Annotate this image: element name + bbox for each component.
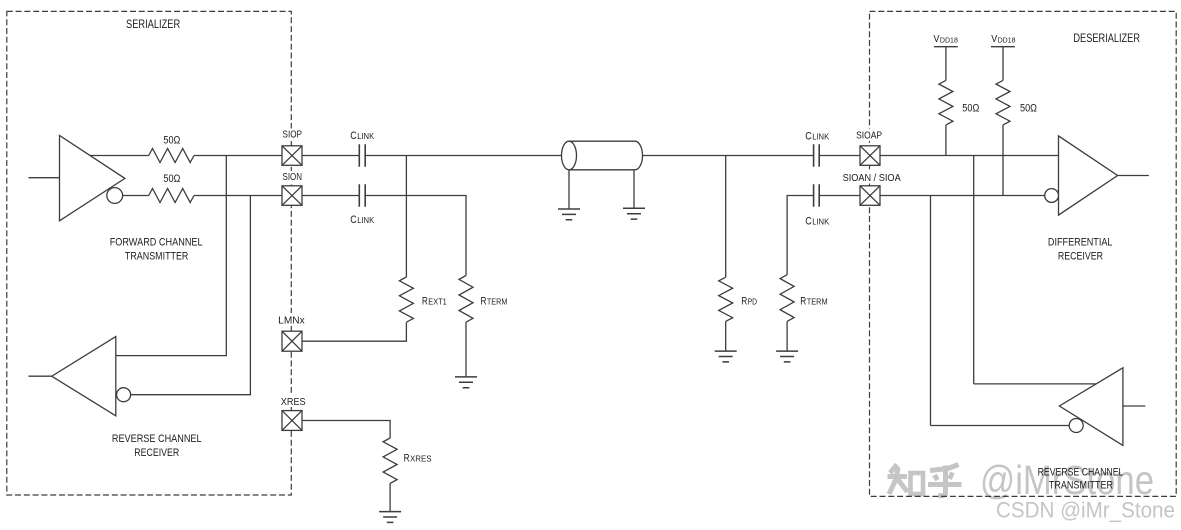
- op-amp forward channel transmitter: [60, 135, 125, 220]
- svg-text:50Ω: 50Ω: [163, 173, 180, 185]
- wire differential receiver output: [1118, 175, 1149, 177]
- svg-text:LINK: LINK: [357, 132, 375, 141]
- svg-text:TERM: TERM: [807, 298, 828, 307]
- svg-text:CSDN @iMr_Stone: CSDN @iMr_Stone: [996, 498, 1175, 523]
- label SIOP: [281, 129, 305, 142]
- svg-text:SERIALIZER: SERIALIZER: [126, 17, 180, 31]
- watermark zhihu CJK glyphs: [888, 465, 962, 496]
- wire CLINK to line: [365, 155, 561, 157]
- pad SIOAN: [860, 186, 880, 206]
- svg-text:LMNx: LMNx: [278, 316, 305, 327]
- supply VDD18 no2: [991, 47, 1015, 81]
- svg-text:XRES: XRES: [410, 455, 432, 464]
- wire tap P to reverse receiver: [116, 156, 227, 356]
- svg-text:R: R: [741, 296, 747, 308]
- bubble reverse rx inverting input: [117, 388, 131, 402]
- pad SION: [282, 186, 302, 206]
- svg-text:50Ω: 50Ω: [163, 135, 180, 147]
- wire RPD to ground: [725, 321, 727, 351]
- op-amp reverse channel receiver: [52, 337, 116, 416]
- resistor 50ohm P: [149, 149, 194, 163]
- capacitor CLINK P left: [359, 144, 365, 167]
- svg-text:C: C: [350, 214, 357, 226]
- svg-text:C: C: [805, 215, 812, 227]
- wire tap N to reverse receiver bubble: [131, 196, 251, 395]
- svg-text:50Ω: 50Ω: [962, 103, 979, 115]
- svg-text:FORWARD CHANNEL: FORWARD CHANNEL: [110, 237, 203, 249]
- wire forward transmitter input: [29, 177, 60, 179]
- wire RPD tap: [725, 156, 727, 278]
- resistor RTERM deserializer side: [780, 275, 794, 322]
- svg-text:REVERSE CHANNEL: REVERSE CHANNEL: [112, 433, 202, 445]
- resistor 50ohm pullup no1: [939, 80, 953, 125]
- bubble forward tx inverting output: [107, 188, 123, 204]
- pad LMNx: [282, 331, 302, 351]
- wire pullup2 to N line: [1002, 125, 1004, 196]
- wire RXRES to ground: [389, 483, 391, 511]
- svg-text:SIOAN / SIOA: SIOAN / SIOA: [843, 173, 901, 184]
- svg-text:DD18: DD18: [998, 36, 1016, 45]
- resistor REXT1 tap wire: [405, 156, 407, 278]
- svg-text:RECEIVER: RECEIVER: [134, 447, 179, 459]
- ground coax right: [623, 208, 645, 219]
- svg-text:TRANSMITTER: TRANSMITTER: [125, 251, 189, 263]
- svg-text:50Ω: 50Ω: [1020, 103, 1037, 115]
- wire CLINK to SIOAN pad: [819, 195, 860, 197]
- wire N to SION pad: [194, 195, 282, 197]
- wire forward tx output P: [90, 155, 149, 157]
- svg-text:V: V: [991, 33, 997, 45]
- svg-text:DIFFERENTIAL: DIFFERENTIAL: [1048, 237, 1113, 249]
- capacitor CLINK P right: [814, 144, 820, 167]
- wire RTERM to ground: [465, 322, 467, 377]
- wire reverse receiver output: [29, 375, 52, 377]
- svg-text:LINK: LINK: [357, 216, 375, 225]
- wire XRES to RXRES: [302, 421, 390, 439]
- wire CLINK to SIOAP pad: [819, 155, 860, 157]
- wire P to SIOP pad: [194, 155, 282, 157]
- label LMNx: [276, 313, 306, 326]
- svg-text:TERM: TERM: [487, 298, 508, 307]
- resistor RTERM serializer side: [459, 276, 473, 323]
- svg-text:SIOAP: SIOAP: [856, 131, 882, 142]
- transmission line coax body: [569, 141, 642, 170]
- ground below RTERM serializer: [455, 377, 477, 388]
- svg-text:EXT1: EXT1: [428, 298, 447, 307]
- wire tap reverse tx upper output: [974, 156, 1096, 384]
- svg-text:RECEIVER: RECEIVER: [1058, 250, 1103, 262]
- ground coax left: [558, 209, 580, 220]
- pad XRES: [282, 411, 302, 431]
- svg-text:R: R: [422, 296, 428, 308]
- label XRES: [279, 394, 307, 407]
- svg-text:DESERIALIZER: DESERIALIZER: [1073, 31, 1140, 45]
- capacitor CLINK N right: [814, 184, 820, 207]
- ground below RXRES: [379, 512, 401, 523]
- label SION: [281, 171, 305, 184]
- ground below RTERM deserializer: [776, 351, 798, 362]
- resistor REXT1: [399, 277, 413, 322]
- svg-text:C: C: [805, 130, 812, 142]
- wire SIOAP to receiver: [880, 155, 1059, 157]
- pad SIOP: [282, 146, 302, 166]
- wire SION pad to CLINK: [302, 195, 359, 197]
- svg-text:REVERSE CHANNEL: REVERSE CHANNEL: [1038, 466, 1124, 478]
- wire SIOP pad to CLINK: [302, 155, 359, 157]
- svg-text:LINK: LINK: [812, 217, 830, 226]
- svg-text:SION: SION: [283, 172, 303, 183]
- deserializer dashed box: [870, 11, 1177, 496]
- wire forward tx output N: [115, 195, 149, 197]
- wire coax shield left to ground: [568, 170, 570, 209]
- resistor RXRES: [383, 438, 397, 483]
- op-amp reverse channel transmitter: [1059, 368, 1123, 446]
- capacitor CLINK N left: [359, 184, 365, 207]
- wire RTERM2 to CLINK N right: [787, 196, 814, 275]
- transmission line left end ellipse: [562, 141, 577, 170]
- wire tap reverse tx bubble output: [931, 196, 1070, 426]
- svg-text:LINK: LINK: [812, 132, 830, 141]
- op-amp differential receiver: [1059, 136, 1118, 215]
- wire line out of coax: [643, 155, 814, 157]
- wire RTERM2 to ground: [786, 321, 788, 351]
- supply VDD18 no1: [934, 47, 958, 81]
- wire SIOAN to receiver bubble: [880, 195, 1045, 197]
- svg-text:R: R: [800, 296, 806, 308]
- label SIOAN: [841, 171, 903, 184]
- svg-text:DD18: DD18: [940, 36, 958, 45]
- pad SIOAP: [860, 146, 880, 166]
- ground below RPD: [715, 351, 737, 362]
- wire REXT1 to LMNx: [302, 322, 406, 341]
- svg-text:V: V: [934, 33, 940, 45]
- svg-text:SIOP: SIOP: [283, 129, 303, 140]
- svg-text:R: R: [481, 296, 487, 308]
- wire CLINK N to RTERM: [365, 196, 466, 276]
- svg-text:R: R: [404, 453, 410, 465]
- resistor 50ohm pullup no2: [996, 80, 1010, 125]
- bubble differential receiver inverting input: [1045, 189, 1059, 203]
- svg-text:XRES: XRES: [281, 397, 306, 408]
- wire pullup1 to P line: [945, 125, 947, 156]
- label SIOAP: [854, 129, 884, 142]
- resistor RPD: [719, 277, 733, 321]
- serializer dashed box: [7, 11, 292, 495]
- bubble reverse tx inverting output: [1069, 419, 1083, 433]
- svg-text:C: C: [350, 130, 357, 142]
- svg-text:TRANSMITTER: TRANSMITTER: [1049, 480, 1113, 492]
- wire reverse transmitter input: [1123, 405, 1145, 407]
- wire coax shield right to ground: [633, 170, 635, 209]
- svg-text:PD: PD: [748, 298, 758, 307]
- resistor 50ohm N: [149, 189, 194, 203]
